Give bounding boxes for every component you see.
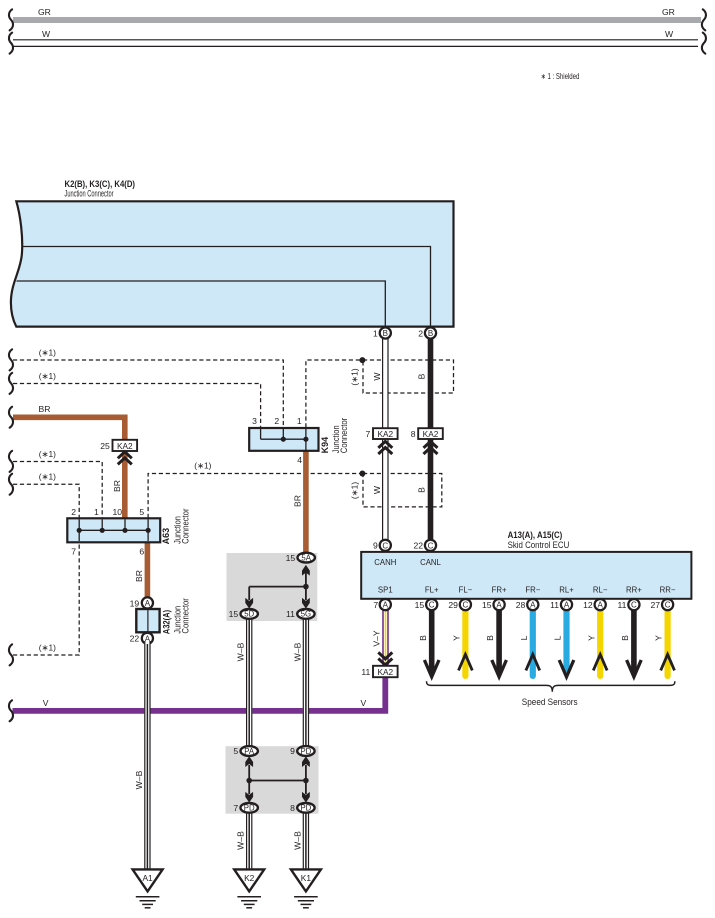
shield dashed line (*1) C to A63 pin 1 (13, 449, 102, 518)
junction connector A63 (67, 507, 190, 557)
shield dashed line (*1) B to K94 pin 3 (13, 371, 261, 428)
svg-text:22: 22 (413, 541, 423, 551)
svg-text:RR−: RR− (660, 586, 676, 595)
svg-text:5D: 5D (244, 610, 254, 619)
pin 9 PD (290, 746, 314, 756)
svg-text:11: 11 (361, 667, 370, 677)
pin 11 5G (286, 609, 315, 619)
svg-text:K94: K94 (320, 437, 330, 454)
shield dashed line (*1) A63 pin 5 to shield box 2 (148, 460, 362, 518)
svg-text:2: 2 (418, 329, 423, 339)
svg-text:15: 15 (286, 553, 296, 563)
svg-text:W: W (372, 372, 382, 381)
continuation squiggle GR left (9, 9, 13, 30)
svg-text:9: 9 (373, 541, 378, 551)
continuation squiggle line C (9, 451, 13, 472)
gray harness box 1 (5A/5D/5G) (227, 553, 318, 621)
wire W (CAN twisted pair, top) (13, 29, 698, 46)
svg-text:KA2: KA2 (377, 429, 393, 439)
svg-text:L: L (553, 635, 563, 640)
wire W-B PD pin 7 to ground K2 (236, 810, 253, 870)
svg-text:KA2: KA2 (377, 667, 393, 677)
continuation squiggle line A (9, 349, 13, 370)
svg-text:C: C (428, 541, 434, 550)
svg-text:(∗1): (∗1) (39, 449, 56, 459)
svg-text:1: 1 (94, 507, 99, 517)
continuation squiggle W right (702, 33, 706, 54)
svg-text:A: A (598, 601, 604, 610)
svg-text:5: 5 (139, 507, 144, 517)
svg-text:(∗1): (∗1) (39, 642, 56, 652)
svg-text:7: 7 (71, 547, 76, 557)
svg-text:K1: K1 (301, 873, 312, 883)
pin 15 C (ECU FL+) (415, 599, 438, 610)
continuation squiggle line E (9, 644, 13, 665)
svg-text:KA2: KA2 (117, 441, 133, 451)
svg-text:FR+: FR+ (492, 586, 507, 595)
pin 1 B (junction connector) (373, 327, 391, 338)
svg-text:A63: A63 (161, 528, 171, 545)
svg-text:C: C (429, 601, 435, 610)
wire W-B A32 pin 22 to ground A1 (134, 641, 150, 870)
continuation squiggle line B (9, 373, 13, 394)
pin 2 B (junction connector) (418, 327, 436, 338)
svg-text:7: 7 (233, 803, 238, 813)
svg-text:BR: BR (112, 480, 122, 492)
wire W-B 5D to PA (236, 616, 253, 749)
svg-text:11: 11 (286, 609, 295, 619)
svg-text:CANH: CANH (374, 558, 396, 567)
shield dashed box 1 (around W/B CAN wires) (350, 360, 454, 393)
svg-text:W–B: W–B (236, 642, 246, 661)
ground K2 (234, 869, 264, 907)
svg-text:∗ 1 : Shielded: ∗ 1 : Shielded (541, 72, 580, 81)
continuation squiggle W left (9, 33, 13, 54)
svg-text:15: 15 (415, 600, 425, 610)
svg-text:Connector: Connector (180, 509, 190, 544)
ground A1 (133, 869, 163, 907)
svg-text:PD: PD (244, 804, 255, 813)
junction dot shield box 2 (359, 471, 365, 477)
connector KA2 pin 11 (361, 666, 397, 677)
continuation squiggle wire BR (9, 407, 13, 428)
svg-text:(∗1): (∗1) (350, 368, 360, 385)
svg-text:8: 8 (290, 803, 295, 813)
wire GR (shield drain, top) (13, 7, 701, 23)
wire W-B 5G to PD (292, 616, 309, 749)
svg-text:19: 19 (130, 598, 140, 608)
continuation squiggle GR right (702, 9, 706, 30)
wire Y RR- speed sensor (654, 606, 675, 676)
junction connector K94 (249, 416, 349, 465)
shield dashed line (*1) A to K94 pin 2 (13, 347, 283, 427)
svg-text:V–Y: V–Y (371, 630, 381, 647)
svg-text:W: W (372, 485, 382, 494)
svg-text:5G: 5G (301, 610, 311, 619)
svg-text:RL−: RL− (593, 586, 608, 595)
svg-text:Y: Y (452, 635, 462, 641)
svg-text:RR+: RR+ (626, 586, 642, 595)
gray harness box 2 (PA/PD) (226, 746, 319, 814)
svg-text:B: B (383, 329, 388, 338)
svg-text:22: 22 (130, 634, 140, 644)
wire BR KA2 pin 25 to A63 pin 10 (112, 451, 125, 520)
wire BR (brown) top left to KA2 pin 25 (13, 404, 125, 440)
wire BR K94 pin 4 to 5A (293, 451, 306, 556)
wire V (violet) horizontal with corner up to KA2 pin 11 (13, 677, 386, 711)
svg-text:BR: BR (39, 404, 51, 414)
svg-text:7: 7 (366, 429, 371, 439)
svg-text:W: W (42, 29, 51, 39)
svg-text:W–B: W–B (236, 831, 246, 850)
wire V-Y SP1 to KA2 pin 11 (371, 606, 392, 666)
svg-text:28: 28 (516, 600, 526, 610)
svg-text:27: 27 (651, 600, 661, 610)
wire BR A63 pin 6 to A32 pin 19 (134, 542, 147, 600)
svg-text:A: A (145, 599, 151, 608)
pin 11 C (ECU RR+) (617, 599, 639, 610)
skid control ECU A13(A),A15(C) (361, 530, 691, 599)
svg-text:25: 25 (100, 441, 110, 451)
svg-text:PD: PD (300, 804, 311, 813)
harness link PA/PD to PD pins (inside gray box 2) (245, 756, 309, 802)
svg-text:W–B: W–B (134, 770, 144, 789)
internal wire to pin 2 (22, 247, 431, 327)
svg-text:A: A (564, 601, 570, 610)
pin 28 A (ECU FR-) (516, 599, 539, 610)
svg-text:Speed Sensors: Speed Sensors (522, 697, 578, 707)
svg-text:FL+: FL+ (425, 586, 439, 595)
pin 12 A (ECU RL-) (583, 599, 606, 610)
shield dashed box 2 (around W/B CAN wires, lower) (350, 474, 442, 507)
svg-text:12: 12 (583, 600, 593, 610)
internal wire to pin 1 (17, 281, 386, 326)
shield dashed line (*1) E to A63 pin 7 (13, 543, 79, 655)
junction dot shield box 1 (359, 357, 365, 363)
junction connector K2(B),K3(C),K4(D) block (11, 179, 454, 327)
svg-text:A1: A1 (142, 873, 153, 883)
svg-text:5: 5 (233, 746, 238, 756)
svg-text:FL−: FL− (459, 586, 473, 595)
continuation squiggle wire V left (9, 700, 13, 721)
svg-text:PA: PA (244, 747, 255, 756)
svg-text:L: L (519, 635, 529, 640)
wire B FL+ speed sensor (418, 606, 439, 677)
svg-text:GR: GR (662, 7, 675, 17)
pin 11 A (ECU RL+) (550, 599, 572, 610)
wire B (CANL) pin 2B to pin 22C (428, 336, 434, 546)
shield dashed line (*1) D to A63 pin 2 (13, 472, 79, 518)
svg-text:8: 8 (411, 429, 416, 439)
svg-text:C: C (382, 541, 388, 550)
svg-text:V: V (43, 698, 49, 708)
svg-text:Y: Y (586, 635, 596, 641)
svg-text:Connector: Connector (339, 418, 349, 453)
svg-text:C: C (463, 601, 469, 610)
svg-text:11: 11 (550, 600, 559, 610)
pin 5 PA (233, 746, 257, 756)
svg-text:A: A (530, 601, 536, 610)
svg-text:BR: BR (293, 495, 303, 507)
svg-text:C: C (665, 601, 671, 610)
continuation squiggle line D (9, 474, 13, 495)
svg-text:B: B (418, 635, 428, 641)
svg-text:9: 9 (290, 746, 295, 756)
pin 22 C (ECU CANL) (413, 540, 436, 551)
svg-text:(∗1): (∗1) (39, 371, 56, 381)
svg-text:10: 10 (113, 507, 123, 517)
svg-text:W–B: W–B (292, 642, 302, 661)
svg-text:(∗1): (∗1) (350, 482, 360, 499)
harness link 5A to 5D and 5G (inside gray box 1) (245, 565, 309, 609)
svg-text:29: 29 (448, 600, 458, 610)
svg-text:(∗1): (∗1) (194, 460, 211, 470)
svg-text:B: B (416, 373, 426, 379)
svg-text:1: 1 (373, 329, 378, 339)
svg-text:A13(A), A15(C): A13(A), A15(C) (508, 530, 563, 540)
pin 8 PD (290, 803, 314, 813)
svg-text:PD: PD (300, 747, 311, 756)
svg-text:W–B: W–B (292, 831, 302, 850)
svg-text:15: 15 (229, 609, 239, 619)
svg-text:RL+: RL+ (559, 586, 574, 595)
svg-text:A32(A): A32(A) (161, 610, 171, 635)
svg-text:B: B (428, 329, 433, 338)
svg-text:KA2: KA2 (423, 429, 439, 439)
ground K1 (291, 869, 321, 907)
pin 15 5D (229, 609, 258, 619)
svg-text:A: A (496, 601, 502, 610)
wire B FR+ speed sensor (485, 606, 506, 677)
svg-text:B: B (416, 487, 426, 493)
svg-text:15: 15 (482, 600, 492, 610)
wire Y FL- speed sensor (452, 606, 473, 676)
wire B RR+ speed sensor (620, 606, 641, 677)
junction connector A32(A) (130, 597, 191, 644)
svg-text:Connector: Connector (180, 598, 190, 633)
pin 27 C (ECU RR-) (651, 599, 674, 610)
pin 7 PD (233, 803, 257, 813)
pin 15 5A (286, 553, 315, 563)
svg-text:FR−: FR− (525, 586, 540, 595)
connector KA2 pin 7 (366, 428, 398, 454)
svg-text:3: 3 (252, 416, 257, 426)
svg-text:(∗1): (∗1) (39, 472, 56, 482)
svg-text:SP1: SP1 (378, 586, 393, 595)
svg-text:A: A (383, 601, 389, 610)
pin 9 C (ECU CANH) (373, 540, 391, 551)
svg-text:2: 2 (71, 507, 76, 517)
svg-text:B: B (620, 635, 630, 641)
pin 15 A (ECU FR+) (482, 599, 505, 610)
wire W-B PD pin 8 to ground K1 (292, 810, 309, 870)
svg-text:5A: 5A (301, 553, 311, 562)
svg-text:Y: Y (654, 635, 664, 641)
wire L RL+ speed sensor (553, 606, 574, 677)
pin 29 C (ECU FL-) (448, 599, 471, 610)
pin 7 A (ECU SP1) (373, 599, 391, 610)
wire L FR- speed sensor (519, 606, 540, 676)
svg-text:(∗1): (∗1) (39, 347, 56, 357)
svg-text:B: B (485, 635, 495, 641)
svg-text:2: 2 (274, 416, 279, 426)
connector KA2 pin 25 (100, 440, 137, 465)
svg-text:4: 4 (297, 455, 302, 465)
wire Y RL- speed sensor (586, 606, 607, 676)
svg-text:7: 7 (373, 600, 378, 610)
connector KA2 pin 8 (411, 428, 443, 454)
svg-text:Junction Connector: Junction Connector (65, 189, 114, 199)
wire W (CANH) pin 1B to pin 9C (382, 336, 388, 546)
svg-text:V: V (361, 698, 367, 708)
svg-text:K2(B), K3(C), K4(D): K2(B), K3(C), K4(D) (65, 179, 136, 189)
brace speed sensors (427, 681, 675, 707)
svg-text:6: 6 (139, 547, 144, 557)
svg-text:Skid Control ECU: Skid Control ECU (508, 540, 570, 550)
svg-text:C: C (631, 601, 637, 610)
svg-text:BR: BR (134, 570, 144, 582)
svg-text:1: 1 (297, 416, 302, 426)
svg-text:W: W (665, 29, 674, 39)
shield dashed branch K94 pin 1 to shield box 1 (306, 360, 363, 428)
svg-text:GR: GR (38, 7, 51, 17)
svg-text:K2: K2 (244, 873, 255, 883)
svg-text:11: 11 (617, 600, 626, 610)
svg-text:CANL: CANL (420, 558, 441, 567)
